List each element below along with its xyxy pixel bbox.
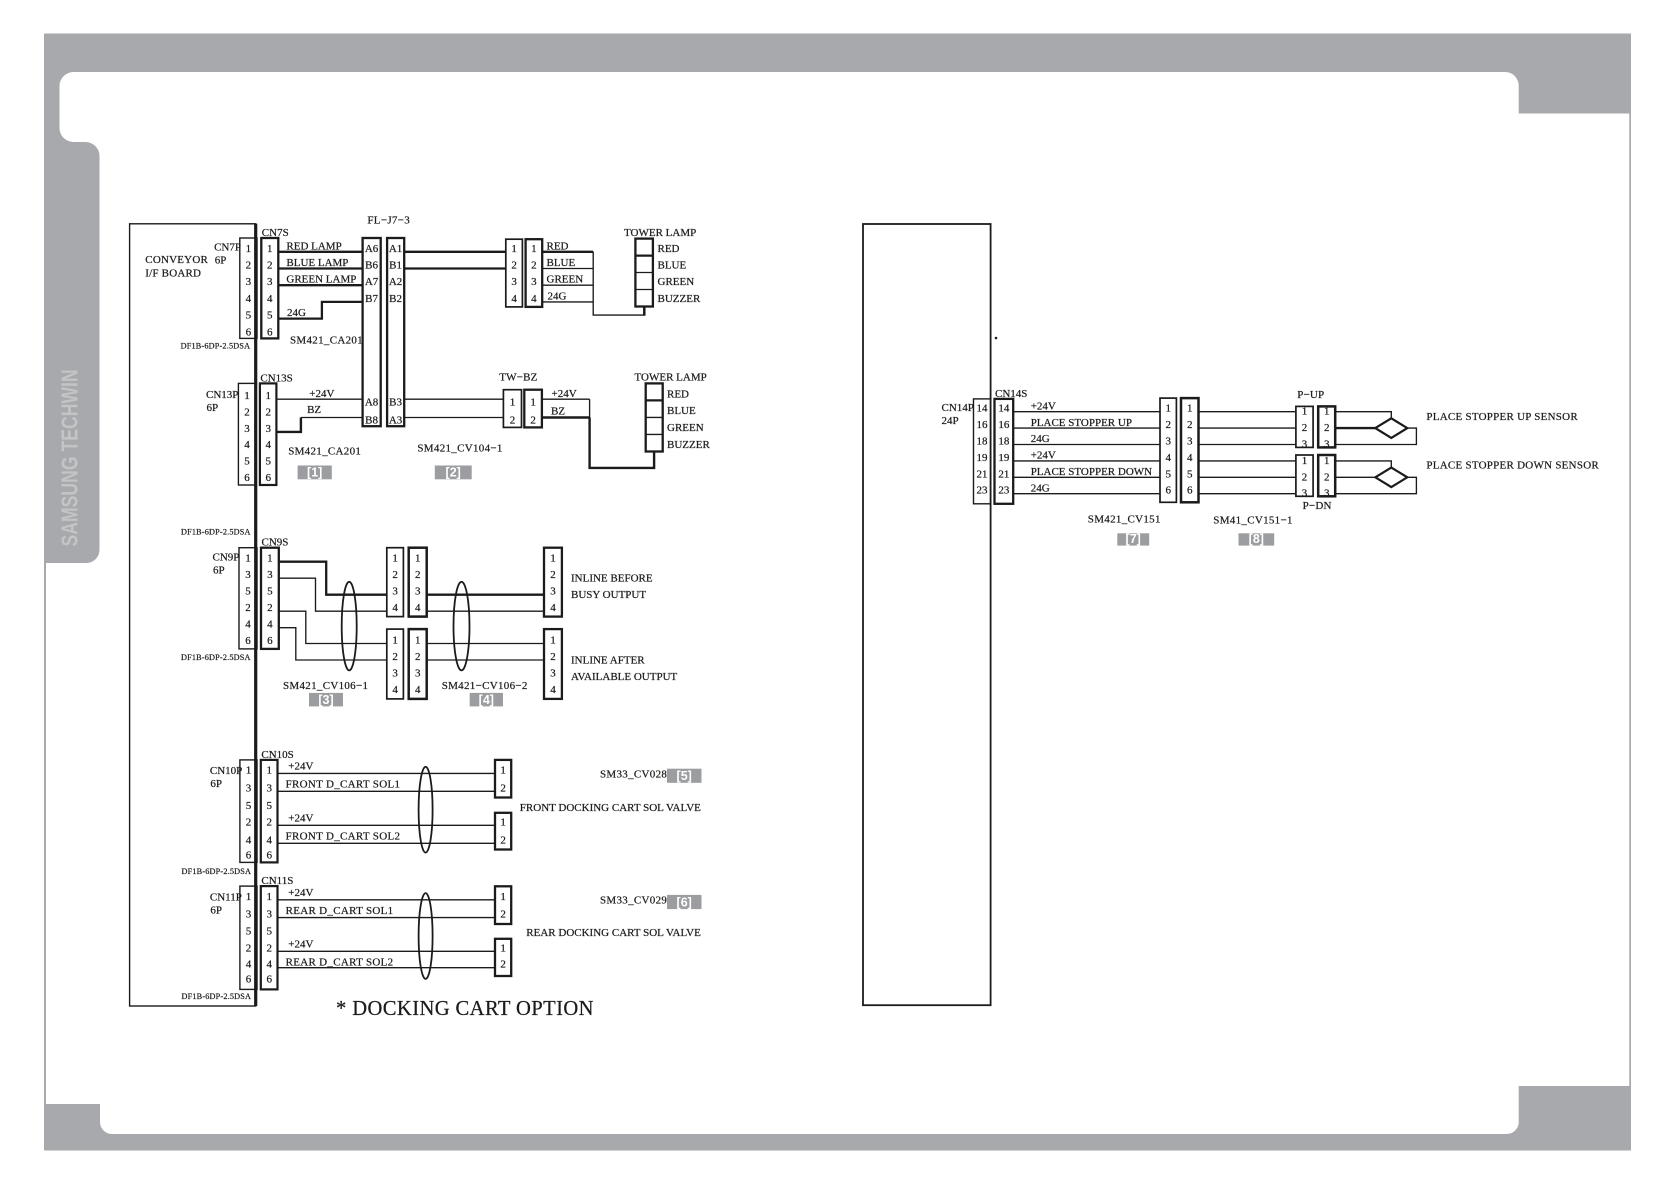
svg-text:23: 23 <box>977 485 989 497</box>
svg-text:1: 1 <box>510 396 516 408</box>
svg-text:3: 3 <box>267 569 273 581</box>
svg-text:6: 6 <box>1165 485 1171 497</box>
svg-text:PLACE STOPPER UP: PLACE STOPPER UP <box>1031 417 1132 429</box>
svg-text:2: 2 <box>246 260 252 272</box>
wire P-DN pin2 <box>1335 476 1375 478</box>
svg-text:2: 2 <box>531 260 537 272</box>
label SM421-CV106-2 <box>442 680 528 692</box>
label SM41_CV151-1 <box>1213 515 1292 527</box>
svg-text:2: 2 <box>267 602 273 614</box>
callout [8] <box>1239 532 1275 546</box>
svg-text:2: 2 <box>1187 419 1193 431</box>
wire lamp cable return <box>593 252 644 316</box>
connector CN13S <box>260 373 293 486</box>
svg-text:B6: B6 <box>365 260 378 272</box>
svg-text:1: 1 <box>1165 403 1171 415</box>
svg-text:4: 4 <box>550 684 556 696</box>
svg-text:CN13P: CN13P <box>206 389 238 401</box>
connector TW-BZ plug <box>499 372 537 428</box>
svg-text:6: 6 <box>244 472 250 484</box>
svg-text:5: 5 <box>267 310 273 322</box>
svg-text:3: 3 <box>267 276 273 288</box>
wire +24V CN14 pin14 <box>1013 400 1160 412</box>
svg-text:3: 3 <box>246 782 252 794</box>
connector CN7S <box>261 227 288 338</box>
wire available output <box>427 659 544 661</box>
wire CV151 pin5 <box>1199 476 1296 478</box>
connector CN9P <box>213 548 258 649</box>
svg-text:2: 2 <box>500 909 506 921</box>
svg-text:3: 3 <box>246 909 252 921</box>
svg-text:INLINE AFTER: INLINE AFTER <box>571 655 645 667</box>
svg-text:1: 1 <box>500 764 506 776</box>
wire +24V lamp2 <box>542 388 590 400</box>
connector CV151 plug <box>1160 398 1176 502</box>
note DOCKING CART OPTION <box>336 998 594 1020</box>
connector front sol valve 2 <box>495 813 511 850</box>
svg-text:AVAILABLE OUTPUT: AVAILABLE OUTPUT <box>571 671 678 683</box>
connector rear sol valve 2 <box>495 939 511 976</box>
connector front sol valve 1 <box>495 760 511 798</box>
wire P-UP pin1 <box>1335 412 1391 419</box>
svg-text:2: 2 <box>1165 419 1171 431</box>
wire CN9S pin3 <box>279 578 387 611</box>
svg-text:TOWER LAMP: TOWER LAMP <box>635 372 707 384</box>
connector CV106-2 socket lower <box>409 629 427 699</box>
svg-text:4: 4 <box>415 684 421 696</box>
wire PLACE STOPPER DOWN CN14 pin21 <box>1013 466 1160 478</box>
svg-text:DF1B-6DP-2.5DSA: DF1B-6DP-2.5DSA <box>181 342 251 351</box>
svg-text:RED: RED <box>667 389 689 401</box>
svg-text:6: 6 <box>246 849 252 861</box>
svg-text:DF1B-6DP-2.5DSA: DF1B-6DP-2.5DSA <box>181 528 251 537</box>
svg-text:2: 2 <box>266 816 272 828</box>
place stopper down sensor <box>1375 460 1599 487</box>
svg-text:14: 14 <box>998 403 1010 415</box>
label SM421_CA201 <box>290 335 363 347</box>
svg-text:19: 19 <box>998 452 1010 464</box>
svg-text:A1: A1 <box>389 243 402 255</box>
svg-text:+24V: +24V <box>309 388 334 400</box>
wire B1 to lamp plug pin2 <box>404 267 506 269</box>
connector CV151 socket <box>1181 398 1199 502</box>
svg-text:1: 1 <box>246 764 252 776</box>
svg-text:1: 1 <box>511 243 517 255</box>
svg-text:4: 4 <box>511 293 517 305</box>
svg-text:4: 4 <box>265 439 271 451</box>
label SM421_CA201 <box>288 446 361 458</box>
svg-text:5: 5 <box>265 456 271 468</box>
svg-text:3: 3 <box>244 423 250 435</box>
connector P-UP socket <box>1318 406 1335 451</box>
svg-text:CN11P: CN11P <box>210 891 242 903</box>
wire RED LAMP <box>278 240 362 252</box>
svg-text:[7]: [7] <box>1126 532 1141 546</box>
svg-text:3: 3 <box>511 276 517 288</box>
cable bundle ellipse <box>419 767 433 853</box>
svg-text:6: 6 <box>265 472 271 484</box>
svg-text:CN9S: CN9S <box>262 537 289 549</box>
svg-text:3: 3 <box>392 586 398 598</box>
svg-text:5: 5 <box>1187 468 1193 480</box>
svg-text:3: 3 <box>550 668 556 680</box>
wire CV151 pin1 <box>1199 411 1296 413</box>
svg-text:3: 3 <box>1302 439 1308 451</box>
svg-text:1: 1 <box>392 553 398 565</box>
svg-text:4: 4 <box>415 602 421 614</box>
svg-text:2: 2 <box>530 415 536 427</box>
svg-text:1: 1 <box>244 390 250 402</box>
svg-text:A3: A3 <box>389 415 403 427</box>
svg-text:SAMSUNG TECHWIN: SAMSUNG TECHWIN <box>57 369 83 546</box>
svg-text:6P: 6P <box>207 402 219 414</box>
wire REAR D_CART SOL2 <box>278 957 496 969</box>
label SM421_CV106-1 <box>283 680 368 692</box>
svg-text:SM41_CV151−1: SM41_CV151−1 <box>1213 515 1292 527</box>
wire +24V rear1 <box>278 887 496 900</box>
svg-text:3: 3 <box>550 586 556 598</box>
svg-text:2: 2 <box>500 834 506 846</box>
svg-text:1: 1 <box>1324 406 1330 418</box>
svg-text:A6: A6 <box>365 243 379 255</box>
wire BZ lamp2 <box>542 405 590 417</box>
svg-text:B7: B7 <box>365 293 378 305</box>
svg-text:1: 1 <box>266 891 272 903</box>
label FRONT DOCKING CART SOL VALVE <box>520 802 701 814</box>
svg-text:P−DN: P−DN <box>1303 500 1332 512</box>
svg-text:2: 2 <box>415 651 421 663</box>
svg-text:B2: B2 <box>389 293 402 305</box>
connector rear sol valve 1 <box>495 886 511 924</box>
svg-text:SM33_CV028: SM33_CV028 <box>600 769 667 781</box>
svg-text:B8: B8 <box>365 415 378 427</box>
svg-text:CN13S: CN13S <box>260 373 292 385</box>
svg-text:RED: RED <box>658 243 680 255</box>
wire REAR D_CART SOL1 <box>278 905 496 918</box>
svg-text:FRONT DOCKING CART SOL VALVE: FRONT DOCKING CART SOL VALVE <box>520 802 701 814</box>
wire 24G lamp <box>542 290 593 302</box>
svg-text:1: 1 <box>246 243 252 255</box>
svg-text:3: 3 <box>392 668 398 680</box>
svg-text:PLACE STOPPER DOWN SENSOR: PLACE STOPPER DOWN SENSOR <box>1426 460 1599 472</box>
svg-text:4: 4 <box>392 684 398 696</box>
svg-text:4: 4 <box>531 293 537 305</box>
svg-text:REAR DOCKING CART SOL VALVE: REAR DOCKING CART SOL VALVE <box>526 927 701 939</box>
svg-text:SM421_CV104−1: SM421_CV104−1 <box>417 443 502 455</box>
svg-text:6: 6 <box>267 326 273 338</box>
wire P-DN pin3 return <box>1335 477 1416 493</box>
wire inline before <box>427 610 544 612</box>
svg-text:3: 3 <box>1187 436 1193 448</box>
svg-text:1: 1 <box>265 390 271 402</box>
connector CN11S <box>261 875 294 989</box>
connector CV106-2 plug lower <box>387 629 404 699</box>
svg-text:5: 5 <box>246 925 252 937</box>
label SM421_CV104-1 <box>417 443 502 455</box>
svg-text:DF1B-6DP-2.5DSA: DF1B-6DP-2.5DSA <box>182 992 252 1001</box>
svg-text:5: 5 <box>245 586 251 598</box>
svg-text:1: 1 <box>415 635 421 647</box>
wire CV151 pin3 <box>1199 444 1296 446</box>
wire BLUE <box>542 257 593 269</box>
svg-text:1: 1 <box>1324 455 1330 467</box>
connector tower lamp plug <box>506 239 523 307</box>
svg-text:1: 1 <box>392 635 398 647</box>
wire CN9S pin2 <box>279 611 387 643</box>
svg-text:5: 5 <box>266 925 272 937</box>
svg-text:6P: 6P <box>215 255 227 267</box>
svg-text:2: 2 <box>244 407 250 419</box>
svg-text:I/F BOARD: I/F BOARD <box>145 268 201 280</box>
svg-text:FRONT D_CART SOL1: FRONT D_CART SOL1 <box>286 779 401 791</box>
wire BLUE LAMP <box>278 257 362 269</box>
svg-text:5: 5 <box>246 800 252 812</box>
svg-text:SM421_CV106−1: SM421_CV106−1 <box>283 680 368 692</box>
svg-text:6P: 6P <box>210 904 222 916</box>
svg-text:24G: 24G <box>1031 433 1050 445</box>
svg-text:2: 2 <box>392 569 398 581</box>
connector P-DN socket <box>1318 455 1335 500</box>
svg-text:1: 1 <box>267 553 273 565</box>
svg-text:5: 5 <box>266 800 272 812</box>
callout [5] <box>667 769 702 784</box>
svg-text:2: 2 <box>550 569 556 581</box>
svg-text:GREEN LAMP: GREEN LAMP <box>286 274 356 286</box>
connector CN9S <box>261 537 288 649</box>
svg-text:5: 5 <box>267 586 273 598</box>
svg-text:BLUE: BLUE <box>547 257 576 269</box>
svg-text:CN7S: CN7S <box>262 227 289 239</box>
wire FRONT D_CART SOL1 <box>278 779 496 792</box>
svg-text:21: 21 <box>977 468 988 480</box>
svg-text:1: 1 <box>1302 406 1308 418</box>
wire GREEN LAMP <box>278 274 362 286</box>
tower lamp 2 <box>635 372 711 452</box>
wire 24G CN14 pin18 <box>1013 433 1160 445</box>
wire FRONT D_CART SOL2 <box>278 831 496 844</box>
svg-text:23: 23 <box>998 485 1010 497</box>
wire B3 to TW-BZ pin1 <box>404 398 503 400</box>
svg-text:1: 1 <box>550 635 556 647</box>
svg-text:BLUE LAMP: BLUE LAMP <box>286 257 348 269</box>
svg-text:SM421_CA201: SM421_CA201 <box>290 335 363 347</box>
svg-text:PLACE STOPPER UP SENSOR: PLACE STOPPER UP SENSOR <box>1426 411 1578 423</box>
connector FL-J7-3 cable side <box>387 238 404 427</box>
svg-text:4: 4 <box>245 619 251 631</box>
svg-text:1: 1 <box>1302 455 1308 467</box>
svg-text:2: 2 <box>245 602 251 614</box>
svg-text:6: 6 <box>1187 485 1193 497</box>
connector CN11P <box>210 886 257 989</box>
wire inline after <box>427 643 544 645</box>
svg-text:3: 3 <box>266 909 272 921</box>
wire 24G CN14 pin23 <box>1013 482 1160 494</box>
svg-text:2: 2 <box>267 260 273 272</box>
svg-text:PLACE STOPPER DOWN: PLACE STOPPER DOWN <box>1031 466 1152 478</box>
svg-text:TOWER LAMP: TOWER LAMP <box>624 227 696 239</box>
svg-text:2: 2 <box>266 942 272 954</box>
callout [3] <box>309 693 343 707</box>
svg-text:2: 2 <box>265 407 271 419</box>
svg-text:3: 3 <box>266 782 272 794</box>
svg-text:1: 1 <box>415 553 421 565</box>
svg-text:6P: 6P <box>210 778 222 790</box>
svg-text:1: 1 <box>530 396 536 408</box>
svg-text:6: 6 <box>246 973 252 985</box>
svg-text:BUSY OUTPUT: BUSY OUTPUT <box>571 589 646 601</box>
svg-text:6P: 6P <box>213 565 225 577</box>
svg-text:4: 4 <box>246 959 252 971</box>
svg-text:5: 5 <box>244 456 250 468</box>
value label DF1B-6DP-2.5DSA <box>181 528 251 537</box>
svg-text:2: 2 <box>510 415 516 427</box>
svg-text:2: 2 <box>1324 471 1330 483</box>
svg-text:B3: B3 <box>389 396 402 408</box>
svg-text:3: 3 <box>1324 488 1330 500</box>
svg-text:CONVEYOR: CONVEYOR <box>145 254 208 266</box>
value label DF1B-6DP-2.5DSA <box>181 653 251 662</box>
wire BZ <box>276 404 362 432</box>
wire +24V rear2 <box>278 939 496 952</box>
connector inline before output <box>544 548 653 617</box>
svg-text:INLINE BEFORE: INLINE BEFORE <box>571 573 653 585</box>
svg-text:2: 2 <box>415 569 421 581</box>
svg-text:4: 4 <box>266 959 272 971</box>
svg-text:[5]: [5] <box>677 769 692 783</box>
conveyor I/F board box <box>130 224 256 1006</box>
svg-text:18: 18 <box>998 436 1010 448</box>
svg-text:16: 16 <box>998 419 1010 431</box>
wire +24V front1 <box>278 761 496 774</box>
svg-text:BUZZER: BUZZER <box>667 439 710 451</box>
svg-text:3: 3 <box>1302 488 1308 500</box>
svg-text:BLUE: BLUE <box>658 260 687 272</box>
value label DF1B-6DP-2.5DSA <box>182 867 252 876</box>
svg-text:REAR D_CART SOL1: REAR D_CART SOL1 <box>286 905 394 917</box>
connector inline after output <box>544 629 678 699</box>
connector CN13P <box>206 383 256 485</box>
wire CV151 pin2 <box>1199 427 1296 429</box>
wire CN9S pin1 <box>279 562 387 595</box>
svg-text:SM33_CV029: SM33_CV029 <box>600 895 667 907</box>
callout [6] <box>667 895 702 910</box>
svg-text:4: 4 <box>392 602 398 614</box>
svg-text:2: 2 <box>511 260 517 272</box>
svg-text:[1]: [1] <box>307 466 322 480</box>
wire A3 to TW-BZ pin2 <box>404 417 503 419</box>
svg-text:14: 14 <box>977 403 989 415</box>
svg-text:FL−J7−3: FL−J7−3 <box>367 215 410 227</box>
svg-text:3: 3 <box>1165 436 1171 448</box>
svg-text:1: 1 <box>266 764 272 776</box>
connector TW-BZ socket <box>524 390 542 428</box>
wire P-DN pin1 <box>1335 461 1391 468</box>
svg-text:4: 4 <box>1165 452 1171 464</box>
value label DF1B-6DP-2.5DSA <box>182 992 252 1001</box>
svg-text:2: 2 <box>246 942 252 954</box>
svg-text:GREEN: GREEN <box>658 276 695 288</box>
svg-text:RED LAMP: RED LAMP <box>286 240 341 252</box>
svg-text:4: 4 <box>267 619 273 631</box>
svg-text:SM421_CA201: SM421_CA201 <box>288 446 361 458</box>
svg-text:24G: 24G <box>548 290 567 302</box>
svg-text:2: 2 <box>500 959 506 971</box>
svg-text:+24V: +24V <box>288 813 313 825</box>
svg-text:18: 18 <box>977 436 989 448</box>
svg-text:GREEN: GREEN <box>667 422 704 434</box>
svg-text:1: 1 <box>500 816 506 828</box>
svg-text:BZ: BZ <box>307 404 321 416</box>
svg-text:[3]: [3] <box>318 693 333 707</box>
svg-text:4: 4 <box>1187 452 1193 464</box>
label SM33_CV028 <box>600 769 667 781</box>
connector CN10P <box>210 760 257 863</box>
svg-text:24G: 24G <box>1031 482 1050 494</box>
svg-text:REAR D_CART SOL2: REAR D_CART SOL2 <box>286 957 394 969</box>
wire CV151 pin6 <box>1199 493 1296 495</box>
svg-text:6: 6 <box>246 326 252 338</box>
svg-text:5: 5 <box>246 310 252 322</box>
svg-text:3: 3 <box>245 569 251 581</box>
connector tower lamp socket <box>526 239 543 307</box>
cable bundle ellipse <box>454 582 470 671</box>
svg-text:B1: B1 <box>389 260 402 272</box>
svg-text:[4]: [4] <box>479 693 494 707</box>
label REAR DOCKING CART SOL VALVE <box>526 927 701 939</box>
svg-text:A2: A2 <box>389 276 402 288</box>
cable bundle ellipse <box>342 582 357 671</box>
svg-text:6: 6 <box>266 849 272 861</box>
callout [2] <box>435 466 472 480</box>
svg-text:3: 3 <box>1324 439 1330 451</box>
svg-text:P−UP: P−UP <box>1297 389 1324 401</box>
svg-text:+24V: +24V <box>1031 450 1056 462</box>
label SM33_CV029 <box>600 895 667 907</box>
svg-text:1: 1 <box>500 891 506 903</box>
wire RED <box>542 240 593 252</box>
svg-text:BLUE: BLUE <box>667 405 696 417</box>
callout [7] <box>1117 532 1149 546</box>
svg-text:16: 16 <box>977 419 989 431</box>
svg-text:CN10S: CN10S <box>261 749 293 761</box>
svg-text:BZ: BZ <box>551 405 565 417</box>
svg-text:+24V: +24V <box>288 887 313 899</box>
connector CN10S <box>261 749 294 862</box>
svg-text:SM421_CV151: SM421_CV151 <box>1088 514 1161 526</box>
svg-text:* DOCKING CART OPTION: * DOCKING CART OPTION <box>336 998 594 1020</box>
svg-text:+24V: +24V <box>288 939 313 951</box>
svg-text:CN9P: CN9P <box>213 552 240 564</box>
node dot <box>995 337 998 340</box>
svg-text:DF1B-6DP-2.5DSA: DF1B-6DP-2.5DSA <box>182 867 252 876</box>
svg-text:6: 6 <box>245 635 251 647</box>
callout [4] <box>470 693 503 707</box>
svg-text:2: 2 <box>1302 422 1308 434</box>
svg-text:6: 6 <box>266 973 272 985</box>
svg-text:DF1B-6DP-2.5DSA: DF1B-6DP-2.5DSA <box>181 653 251 662</box>
connector CN14P <box>942 399 991 504</box>
place stopper up sensor <box>1375 411 1578 438</box>
svg-text:2: 2 <box>1324 422 1330 434</box>
svg-text:CN14S: CN14S <box>995 388 1027 400</box>
wire PLACE STOPPER UP CN14 pin16 <box>1013 417 1160 429</box>
wire A1 to lamp plug pin1 <box>404 251 506 253</box>
svg-text:CN11S: CN11S <box>261 875 293 887</box>
svg-text:[2]: [2] <box>446 466 461 480</box>
svg-text:1: 1 <box>267 243 273 255</box>
svg-text:RED: RED <box>547 240 569 252</box>
svg-text:[8]: [8] <box>1249 532 1264 546</box>
